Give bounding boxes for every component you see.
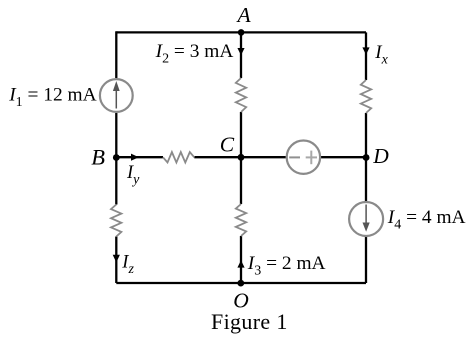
svg-text:A: A (236, 3, 252, 27)
svg-text:Figure 1: Figure 1 (211, 309, 288, 334)
svg-text:Iy: Iy (126, 163, 140, 188)
svg-text:C: C (220, 133, 235, 157)
svg-text:B: B (91, 144, 105, 169)
svg-text:D: D (372, 144, 389, 168)
svg-text:I4 = 4 mA: I4 = 4 mA (387, 207, 466, 233)
svg-text:I1 = 12 mA: I1 = 12 mA (8, 84, 96, 110)
svg-text:I2 = 3 mA: I2 = 3 mA (155, 41, 234, 66)
svg-text:I3 = 2 mA: I3 = 2 mA (247, 253, 326, 279)
svg-text:Iz: Iz (121, 253, 134, 278)
svg-text:Ix: Ix (374, 42, 388, 68)
